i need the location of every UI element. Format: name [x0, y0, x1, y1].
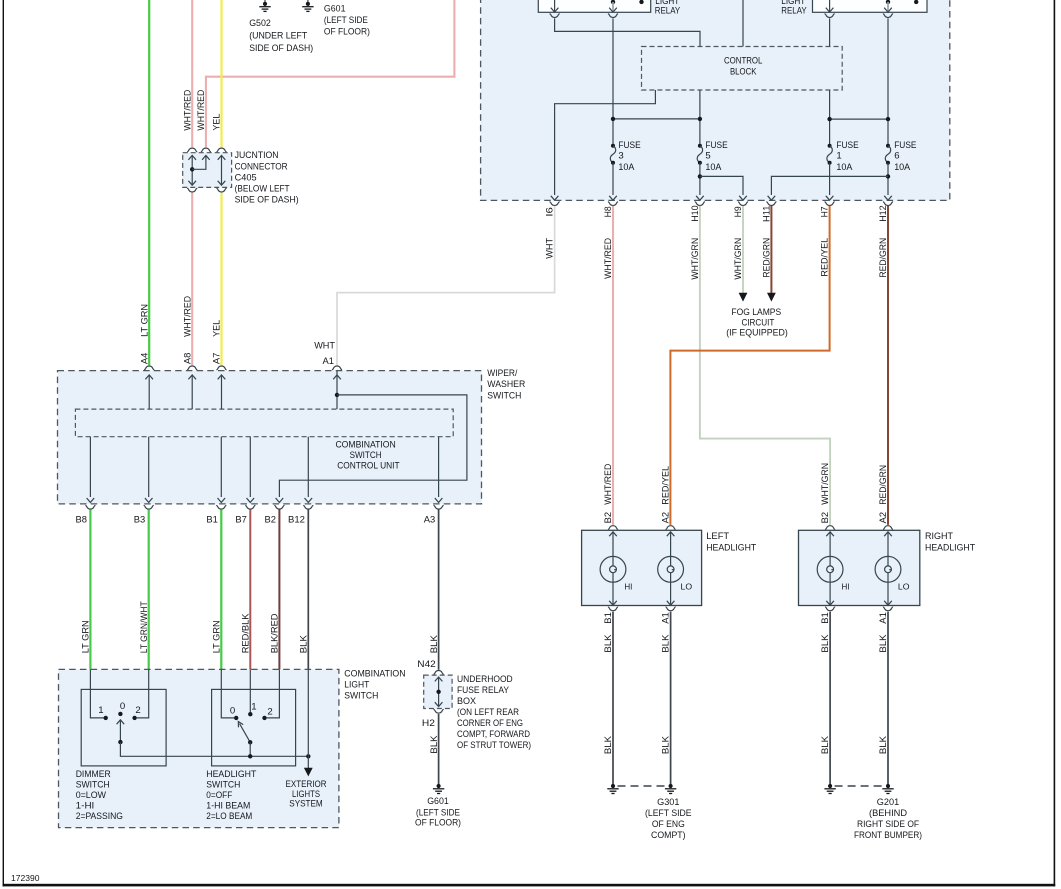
output wire B3 — [145, 437, 153, 503]
wire control block to fuse 5 — [699, 90, 701, 146]
left headlight bottom cups — [608, 607, 676, 611]
fuse 5 10A — [697, 140, 728, 173]
svg-text:OF ENG: OF ENG — [652, 819, 685, 830]
output wire A3 — [435, 437, 443, 503]
wire WHT from I6 to A1 — [337, 206, 555, 365]
headlight feed B7 to contact 1 — [249, 669, 251, 712]
page frame left border — [3, 0, 4, 886]
svg-text:172390: 172390 — [11, 874, 40, 883]
svg-text:UNDERHOOD: UNDERHOOD — [457, 674, 513, 685]
wire BLK H2 to ground — [438, 714, 440, 784]
wire LT GRN/WHT B3 — [148, 510, 150, 670]
svg-text:G301: G301 — [657, 797, 679, 808]
left headlight cup B2 — [608, 526, 618, 530]
right HI bulb circuit — [817, 532, 843, 606]
svg-text:HI: HI — [842, 581, 850, 591]
svg-text:HEADLIGHT: HEADLIGHT — [925, 543, 975, 554]
right headlight cup A2 — [883, 526, 893, 530]
output wire B8 — [87, 437, 95, 503]
svg-text:FUSE: FUSE — [836, 140, 858, 151]
dimmer contact 2 — [132, 716, 136, 720]
svg-text:A7: A7 — [212, 353, 223, 365]
wire LT GRN B1 — [220, 510, 222, 670]
svg-text:SWITCH: SWITCH — [350, 450, 382, 461]
svg-text:FUSE: FUSE — [618, 140, 640, 151]
wire BLK right A1 to ground — [887, 612, 889, 784]
junction connector C405 box — [183, 153, 232, 188]
svg-text:0: 0 — [120, 701, 125, 712]
svg-text:SWITCH: SWITCH — [76, 780, 110, 791]
svg-text:COMBINATION: COMBINATION — [344, 669, 405, 680]
svg-text:BLK: BLK — [429, 635, 440, 654]
svg-text:B1: B1 — [206, 515, 218, 526]
svg-text:B3: B3 — [134, 515, 146, 526]
ground G301 dashed link — [618, 785, 667, 787]
dimmer feed B3 to contact 2 — [137, 669, 149, 718]
svg-text:BLK: BLK — [429, 735, 440, 754]
right light relay box — [813, 0, 928, 12]
ground G201 label — [854, 797, 922, 841]
svg-text:1-HI BEAM: 1-HI BEAM — [206, 801, 250, 812]
svg-text:1-HI: 1-HI — [76, 801, 95, 812]
wire B12 to exterior lights — [307, 669, 309, 768]
svg-text:(UNDER LEFT: (UNDER LEFT — [249, 31, 307, 42]
wire right relay pin1 to control block — [829, 18, 831, 46]
svg-text:DIMMER: DIMMER — [76, 769, 111, 780]
svg-text:5: 5 — [705, 151, 710, 162]
svg-text:(LEFT SIDE: (LEFT SIDE — [645, 808, 692, 819]
right relay pin1 connector cup — [825, 14, 835, 18]
control unit label — [335, 439, 399, 471]
wire WHT/RED branch from junction connector pin 2 — [206, 0, 455, 147]
svg-text:LIGHT: LIGHT — [344, 679, 369, 690]
fuse 3 10A — [610, 140, 640, 173]
output wire B12 — [305, 437, 313, 503]
svg-text:FUSE RELAY: FUSE RELAY — [457, 685, 510, 696]
left relay pin1 connector cup — [550, 14, 560, 18]
svg-text:RIGHT SIDE OF: RIGHT SIDE OF — [857, 819, 919, 830]
exterior lights system label — [286, 779, 327, 809]
wire from left relay pin2 down to fuse 3 — [612, 18, 614, 145]
svg-text:A8: A8 — [182, 353, 193, 365]
svg-text:FRONT BUMPER): FRONT BUMPER) — [854, 830, 922, 841]
svg-text:COMPT): COMPT) — [651, 830, 686, 841]
svg-text:N42: N42 — [417, 659, 436, 670]
svg-text:0=OFF: 0=OFF — [206, 790, 232, 801]
wiper/washer switch label — [487, 368, 525, 401]
svg-text:CONTROL: CONTROL — [724, 55, 763, 66]
junction connector internal wire 2 — [192, 155, 210, 169]
headlight switch label — [206, 769, 256, 822]
N42 cup top — [434, 671, 444, 675]
svg-text:C405: C405 — [235, 172, 257, 183]
svg-text:BLK: BLK — [878, 735, 889, 754]
connector cups bottom of control unit — [85, 505, 443, 509]
svg-text:LEFT: LEFT — [706, 531, 729, 542]
svg-text:A1: A1 — [323, 356, 335, 367]
svg-text:H2: H2 — [422, 718, 435, 729]
svg-text:COMBINATION: COMBINATION — [335, 439, 395, 450]
exterior lights arrow — [304, 768, 313, 777]
ground G502 label — [249, 18, 313, 54]
right LO bulb circuit — [875, 532, 901, 606]
control unit inner box — [75, 409, 453, 437]
control unit input arrow A8 — [188, 375, 196, 409]
svg-text:LO: LO — [898, 581, 910, 591]
svg-text:SIDE OF DASH): SIDE OF DASH) — [249, 43, 313, 54]
svg-text:(BELOW LEFT: (BELOW LEFT — [235, 184, 290, 195]
svg-text:WASHER: WASHER — [487, 379, 525, 390]
fuse 5 wire to H10 — [696, 163, 704, 201]
left LO bulb circuit — [658, 532, 684, 606]
left light relay node dot — [639, 0, 643, 4]
svg-text:1: 1 — [836, 151, 841, 162]
wire control block to I6 jog — [551, 90, 656, 200]
svg-text:JUCNTION: JUCNTION — [235, 150, 279, 161]
wire RED/YEL from H7 to left headlight A2 — [670, 206, 829, 525]
svg-text:(ON LEFT REAR: (ON LEFT REAR — [457, 707, 519, 718]
right light relay pin 2 wire — [884, 0, 892, 12]
svg-text:CONNECTOR: CONNECTOR — [235, 161, 288, 172]
svg-text:WHT/RED: WHT/RED — [196, 90, 207, 131]
svg-text:2=PASSING: 2=PASSING — [76, 811, 123, 822]
wire from left relay pin1 to control block — [555, 18, 700, 46]
wire LT GRN into A4 — [148, 0, 150, 365]
ground G301 label — [645, 797, 692, 841]
dimmer switch box — [81, 689, 166, 766]
svg-text:LO: LO — [681, 581, 693, 591]
underhood fuse relay box label — [457, 674, 531, 751]
wire WHT/GRN from H10 to right headlight B2 — [700, 206, 830, 525]
fog lamps arrow H9 — [739, 293, 748, 302]
svg-text:B2: B2 — [603, 512, 614, 524]
svg-text:(BEHIND: (BEHIND — [869, 808, 907, 819]
wire YEL into junction connector pin 3 — [220, 0, 222, 147]
ground G601 bottom label — [415, 796, 461, 828]
svg-text:A4: A4 — [139, 352, 150, 364]
svg-text:SWITCH: SWITCH — [206, 780, 240, 791]
svg-text:2=LO BEAM: 2=LO BEAM — [206, 811, 252, 822]
output arrow B2 — [276, 498, 284, 502]
right relay pin2 connector cup — [883, 14, 893, 18]
left light relay pin 1 wire — [551, 0, 559, 12]
dimmer switch label — [76, 769, 123, 822]
svg-text:10A: 10A — [618, 162, 635, 173]
dimmer switch arm — [117, 720, 125, 745]
svg-text:OF FLOOR): OF FLOOR) — [324, 27, 370, 38]
wire BLK left B1 to ground — [612, 612, 614, 784]
svg-text:COMPT, FORWARD: COMPT, FORWARD — [457, 729, 530, 740]
svg-text:LT GRN: LT GRN — [139, 304, 150, 337]
svg-text:OF FLOOR): OF FLOOR) — [415, 818, 461, 829]
svg-text:A2: A2 — [661, 512, 672, 524]
svg-text:WHT/RED: WHT/RED — [182, 296, 193, 337]
headlight arm to common rail — [248, 742, 252, 758]
junction connector label — [235, 150, 299, 205]
svg-text:A2: A2 — [878, 512, 889, 524]
wire right relay pin2 down to fuse 6 — [887, 18, 889, 145]
control block box (dashed) — [642, 47, 843, 91]
node B12 on common rail — [306, 754, 310, 758]
svg-text:BLK/RED: BLK/RED — [270, 613, 281, 653]
control unit input arrow A7 — [218, 375, 226, 409]
right headlight box — [799, 530, 920, 605]
page frame right border — [1054, 0, 1056, 886]
ground G301 left node — [607, 784, 618, 794]
N42 internal wire — [435, 677, 443, 707]
svg-text:BLK: BLK — [603, 735, 614, 754]
headlight contact 0 — [234, 716, 238, 720]
wire YEL from junction connector to A7 — [220, 193, 222, 365]
svg-text:YEL: YEL — [212, 113, 223, 131]
combination light switch label — [344, 669, 405, 702]
wire WHT/GRN stub H9 to fog lamps — [742, 206, 744, 293]
combination light switch box — [59, 669, 339, 827]
svg-text:2: 2 — [267, 706, 272, 717]
svg-text:LT GRN: LT GRN — [212, 620, 223, 653]
svg-text:B2: B2 — [265, 515, 277, 526]
svg-text:G601: G601 — [427, 796, 449, 807]
svg-text:WIPER/: WIPER/ — [487, 368, 517, 379]
headlight switch arm — [238, 722, 252, 745]
right light relay node dot — [914, 0, 918, 4]
junction link H7-H12 — [827, 117, 890, 121]
svg-text:G601: G601 — [324, 3, 346, 14]
headlight feed B2 to contact 2 — [267, 669, 280, 718]
svg-text:0: 0 — [230, 706, 235, 717]
svg-text:RED/BLK: RED/BLK — [241, 613, 252, 653]
svg-text:BOX: BOX — [457, 696, 477, 707]
svg-text:0=LOW: 0=LOW — [76, 790, 107, 801]
svg-text:FUSE: FUSE — [705, 140, 727, 151]
svg-text:CONTROL UNIT: CONTROL UNIT — [337, 460, 400, 471]
svg-text:BLK: BLK — [299, 635, 310, 654]
svg-text:HI: HI — [624, 581, 632, 591]
fuse 1 10A — [827, 140, 859, 173]
headlight feed B1 to contact 0 — [221, 669, 234, 718]
junction connector internal wire 1 — [188, 155, 196, 185]
connector cups under big box: I6 H8 H10 H9 H11 H7 H12 — [550, 202, 894, 206]
wire BLK right B1 to ground — [829, 612, 831, 784]
svg-text:SYSTEM: SYSTEM — [289, 798, 322, 809]
left light relay label — [655, 0, 681, 17]
wire control block to fuse 1 — [829, 90, 831, 146]
underhood fuse relay box N42 — [424, 675, 452, 708]
fog lamps circuit label — [726, 307, 788, 339]
fuse 3 wire to H8 — [609, 163, 617, 201]
left HI bulb circuit — [600, 532, 626, 606]
wire RED/GRN stub H11 to fog lamps — [770, 206, 772, 293]
junction connector cups top — [187, 148, 227, 152]
ground G601 bottom — [433, 784, 444, 794]
fuse 6 wire to H12 — [884, 163, 892, 201]
dimmer feed B8 to contact 1 — [90, 669, 103, 718]
right headlight bottom cups — [825, 607, 893, 611]
svg-text:(LEFT SIDE: (LEFT SIDE — [324, 15, 368, 26]
wire BLK left A1 to ground — [670, 612, 672, 784]
connector cups top of control unit: A4 A8 A7 A1 — [144, 366, 342, 370]
junction connector cups bottom — [187, 188, 227, 192]
fuse 6 10A — [885, 140, 916, 173]
dimmer output wire to common rail — [120, 742, 308, 756]
svg-text:A3: A3 — [424, 515, 436, 526]
svg-text:YEL: YEL — [212, 319, 223, 337]
svg-text:WHT: WHT — [314, 341, 335, 352]
wire H9 branch — [700, 176, 747, 200]
left light relay box — [538, 0, 650, 12]
wire BLK B12 — [307, 510, 309, 670]
dimmer contact 1 — [104, 716, 108, 720]
junction connector internal wire 3 — [218, 155, 226, 185]
svg-text:G201: G201 — [877, 797, 899, 808]
ground G301 right node — [665, 784, 676, 794]
svg-text:HEADLIGHT: HEADLIGHT — [706, 543, 756, 554]
wire WHT/RED from H8 to left headlight B2 — [612, 206, 614, 525]
right headlight label — [925, 531, 975, 554]
control block label — [724, 55, 763, 77]
svg-text:BLOCK: BLOCK — [730, 67, 757, 78]
left headlight label — [706, 531, 756, 554]
svg-text:OF STRUT TOWER): OF STRUT TOWER) — [457, 740, 531, 751]
svg-text:RELAY: RELAY — [655, 6, 681, 17]
headlight contact 1 — [248, 712, 252, 716]
output wire B7 — [247, 437, 255, 503]
wire WHT/RED into junction connector pin 1 — [191, 0, 193, 147]
svg-text:RIGHT: RIGHT — [925, 531, 953, 542]
svg-text:BLK: BLK — [661, 735, 672, 754]
svg-text:10A: 10A — [836, 162, 853, 173]
dimmer contact 0 — [118, 712, 122, 716]
svg-text:FUSE: FUSE — [894, 140, 916, 151]
wire H11 branch — [768, 176, 888, 200]
svg-text:RED/GRN: RED/GRN — [878, 465, 889, 505]
wire H9 feed into control block from above — [742, 0, 744, 47]
junction link H8-H10 — [611, 117, 702, 121]
svg-text:(IF EQUIPPED): (IF EQUIPPED) — [726, 328, 788, 339]
svg-text:1: 1 — [98, 705, 103, 716]
wire WHT/RED from junction connector to A8 — [191, 193, 193, 365]
fuse 1 wire to H7 — [826, 163, 834, 201]
svg-text:BLK: BLK — [820, 735, 831, 754]
svg-text:2: 2 — [135, 705, 140, 716]
svg-text:3: 3 — [618, 151, 623, 162]
ground G201 right node — [882, 784, 893, 794]
svg-text:SIDE OF DASH): SIDE OF DASH) — [235, 195, 299, 206]
control unit input A1 with node — [333, 371, 341, 410]
svg-text:10A: 10A — [894, 162, 911, 173]
svg-text:6: 6 — [894, 151, 899, 162]
wire LT GRN B8 — [89, 510, 91, 670]
left relay pin2 connector cup — [608, 14, 618, 18]
svg-text:WHT/RED: WHT/RED — [182, 90, 193, 131]
svg-text:WHT/GRN: WHT/GRN — [820, 463, 831, 505]
svg-text:FOG LAMPS: FOG LAMPS — [731, 307, 781, 318]
svg-text:B2: B2 — [820, 512, 831, 524]
left headlight box — [582, 530, 702, 605]
svg-text:WHT/RED: WHT/RED — [603, 464, 614, 505]
svg-text:RED/YEL: RED/YEL — [661, 465, 672, 504]
wiper/washer + combination switch control unit box — [58, 371, 482, 504]
svg-text:LT GRN/WHT: LT GRN/WHT — [139, 601, 150, 653]
underhood fuse/relay big box (dashed, cut at top) — [481, 0, 950, 200]
ground G201 left node — [824, 784, 835, 794]
right light relay pin 1 wire — [826, 0, 834, 12]
N42 cup bottom — [434, 709, 444, 713]
page frame bottom border — [3, 884, 1056, 887]
svg-text:B8: B8 — [76, 515, 88, 526]
fog lamps arrow H11 — [767, 293, 776, 302]
svg-text:HEADLIGHT: HEADLIGHT — [206, 769, 256, 780]
headlight contact 2 — [262, 716, 266, 720]
wire BLK A3 — [438, 510, 440, 670]
wire RED/BLK B7 — [249, 510, 251, 670]
ground G201 dashed link — [835, 785, 884, 787]
svg-text:B12: B12 — [288, 515, 305, 526]
svg-text:SWITCH: SWITCH — [344, 690, 378, 701]
svg-text:RELAY: RELAY — [781, 6, 807, 17]
right headlight cup B2 — [825, 526, 835, 530]
svg-text:G502: G502 — [249, 18, 271, 29]
ground G601 top label — [324, 3, 370, 37]
left light relay pin 2 wire — [609, 0, 617, 12]
svg-text:LT GRN: LT GRN — [81, 620, 92, 653]
wire BLK/RED B2 — [278, 510, 280, 670]
ground G601 top — [302, 0, 313, 11]
headlight switch box — [212, 689, 296, 766]
svg-text:B7: B7 — [235, 515, 247, 526]
left headlight cup A2 — [666, 526, 676, 530]
svg-text:10A: 10A — [705, 162, 722, 173]
wire RED/GRN from H12 to right headlight A2 — [887, 206, 889, 525]
output wire B1 — [218, 437, 226, 503]
svg-text:1: 1 — [251, 701, 256, 712]
internal feed A1 to B2 — [279, 395, 467, 497]
svg-text:SWITCH: SWITCH — [487, 390, 521, 401]
right light relay label — [781, 0, 807, 17]
control unit input arrow A4 — [145, 375, 153, 409]
svg-text:CORNER OF ENG: CORNER OF ENG — [457, 718, 523, 729]
ground G502 — [259, 0, 270, 11]
